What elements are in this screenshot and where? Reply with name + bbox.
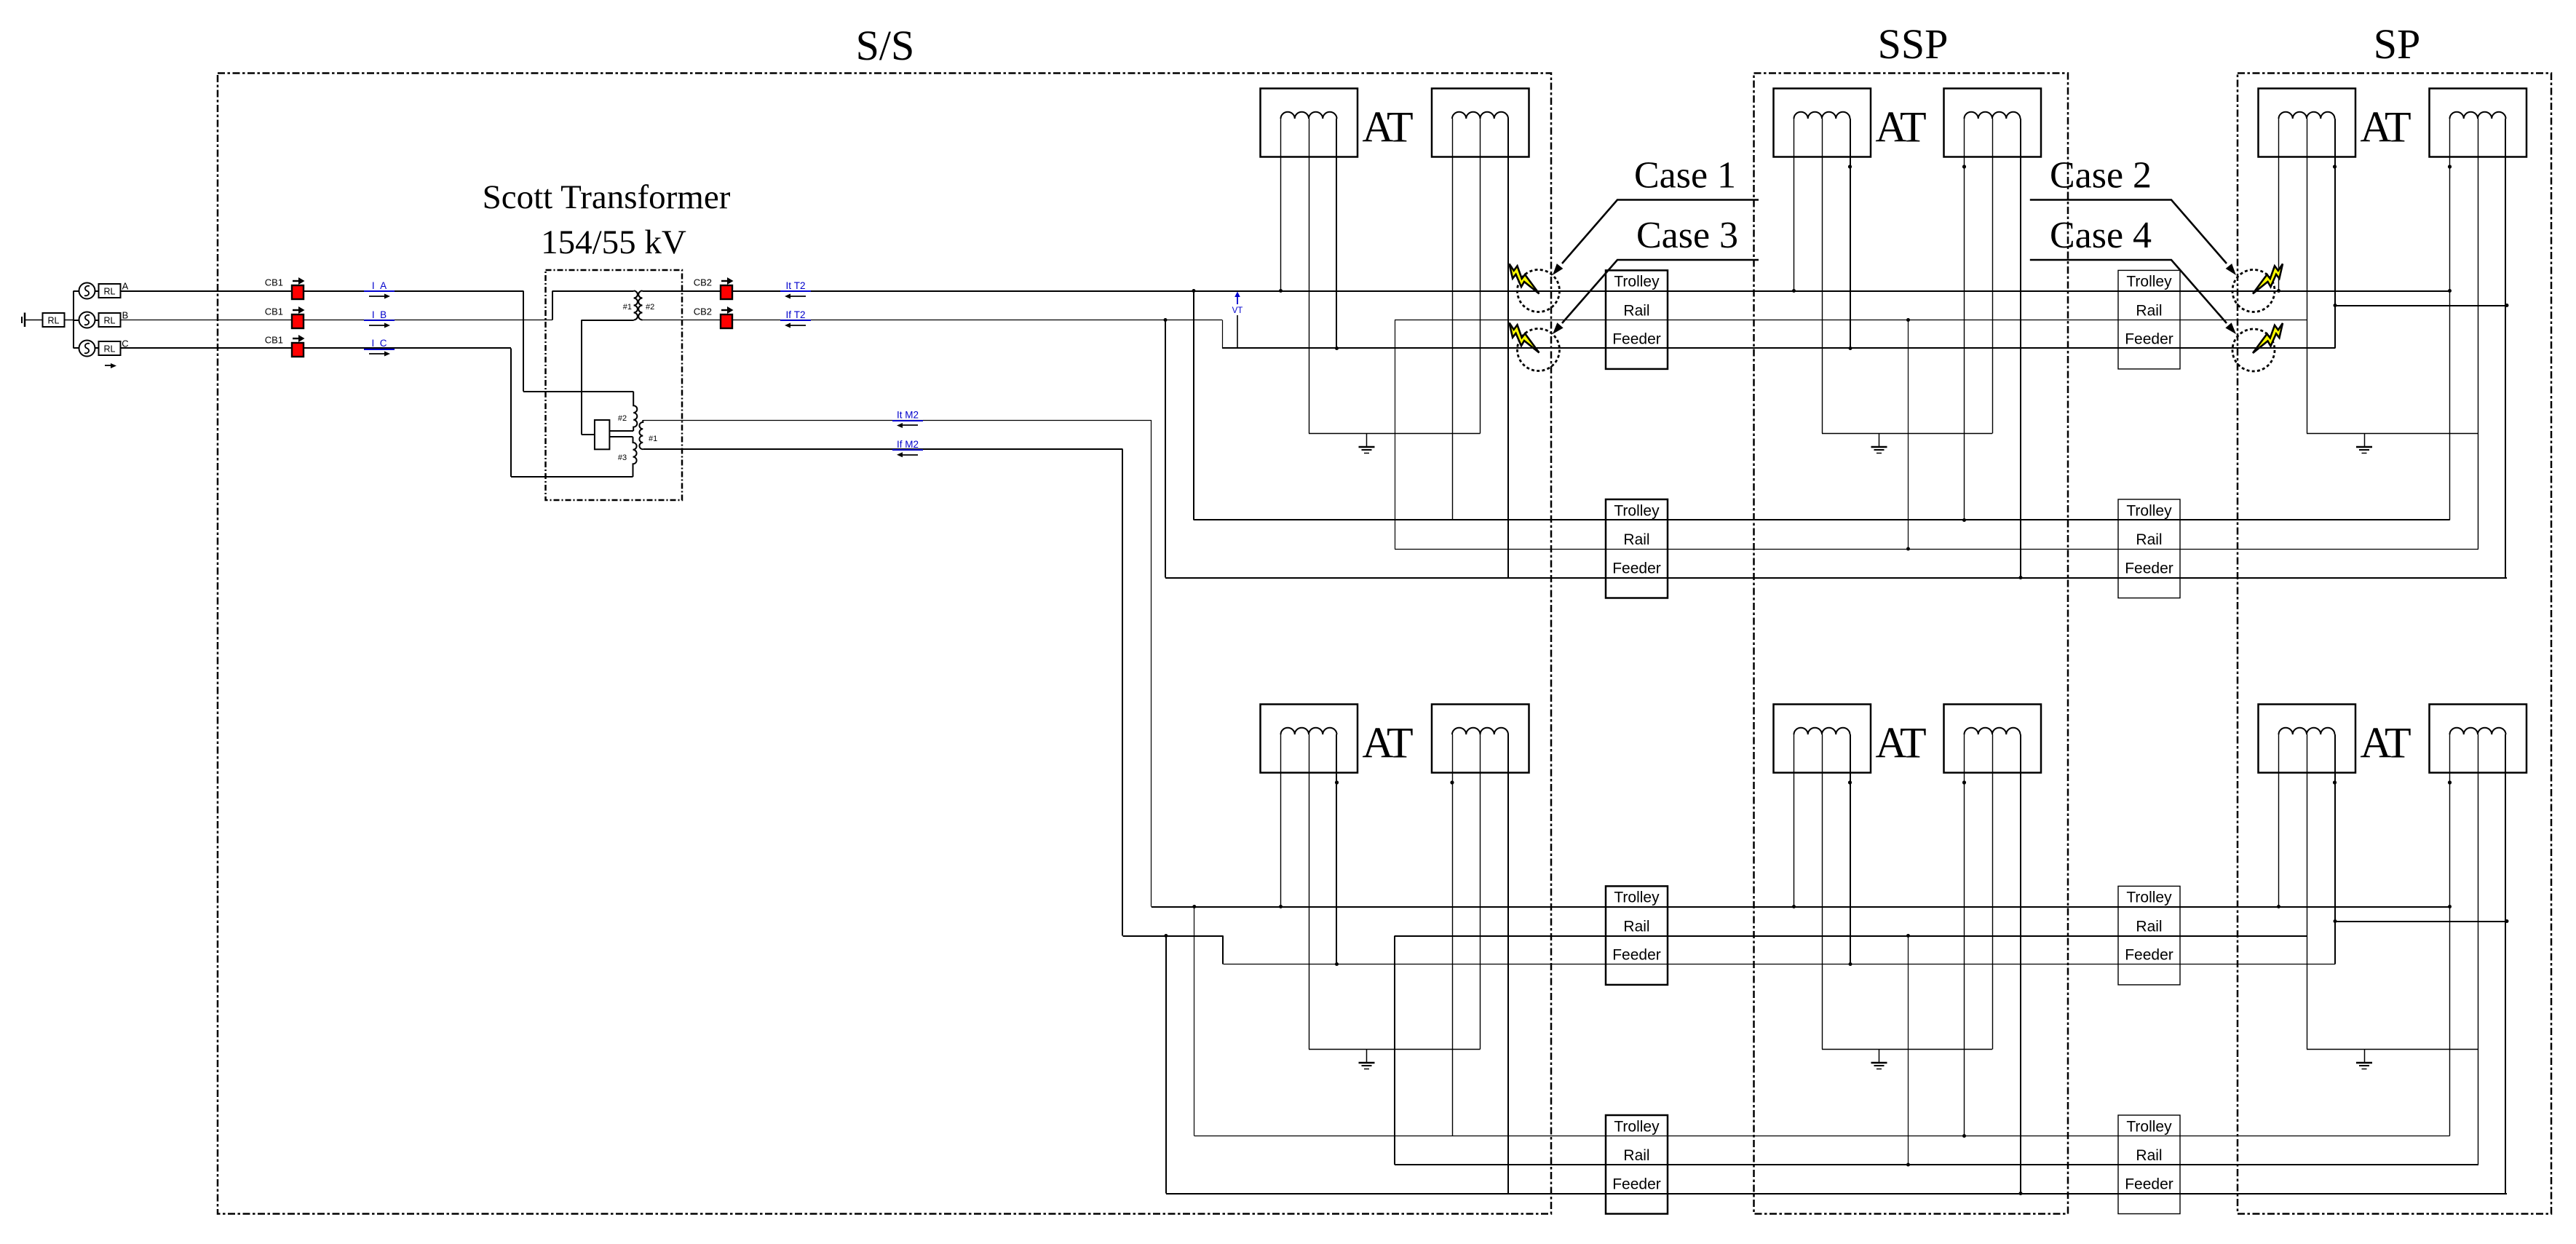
svg-text:#1: #1 [623, 303, 632, 312]
svg-text:B: B [122, 310, 129, 321]
svg-text:Trolley: Trolley [2126, 503, 2172, 520]
svg-text:#2: #2 [618, 414, 627, 423]
svg-text:Rail: Rail [1623, 303, 1649, 320]
svg-text:Trolley: Trolley [2126, 274, 2172, 290]
svg-text:Rail: Rail [2136, 1147, 2162, 1164]
svg-text:SSP: SSP [1878, 20, 1949, 68]
svg-text:AT: AT [1875, 103, 1926, 151]
svg-text:A: A [122, 281, 129, 292]
svg-text:Feeder: Feeder [2125, 1176, 2173, 1193]
svg-text:Rail: Rail [1623, 1147, 1649, 1164]
svg-text:154/55 kV: 154/55 kV [541, 223, 686, 261]
svg-text:RL: RL [104, 287, 116, 297]
svg-text:Case 2: Case 2 [2050, 155, 2152, 197]
svg-text:AT: AT [1875, 719, 1926, 767]
svg-text:Feeder: Feeder [1612, 560, 1661, 577]
svg-text:Trolley: Trolley [2126, 890, 2172, 906]
svg-text:Rail: Rail [2136, 303, 2162, 320]
svg-text:Feeder: Feeder [1612, 947, 1661, 964]
svg-text:Trolley: Trolley [1614, 503, 1660, 520]
svg-text:I C: I C [371, 338, 387, 349]
svg-text:AT: AT [2360, 719, 2411, 767]
svg-text:Rail: Rail [1623, 919, 1649, 935]
svg-text:Feeder: Feeder [2125, 331, 2173, 348]
svg-text:Feeder: Feeder [1612, 331, 1661, 348]
svg-text:Feeder: Feeder [1612, 1176, 1661, 1193]
svg-text:SP: SP [2374, 20, 2421, 68]
svg-text:It M2: It M2 [897, 410, 919, 421]
svg-text:RL: RL [104, 344, 116, 354]
svg-text:Feeder: Feeder [2125, 560, 2173, 577]
svg-text:I B: I B [372, 309, 387, 320]
svg-text:Trolley: Trolley [1614, 274, 1660, 290]
svg-text:CB1: CB1 [265, 306, 283, 317]
svg-text:If T2: If T2 [785, 309, 805, 320]
svg-text:CB2: CB2 [694, 306, 712, 317]
svg-text:Case 1: Case 1 [1634, 155, 1736, 197]
svg-text:#2: #2 [646, 303, 654, 312]
svg-text:I A: I A [372, 280, 387, 291]
svg-text:Case 4: Case 4 [2050, 215, 2152, 256]
svg-text:Rail: Rail [2136, 531, 2162, 548]
svg-text:S/S: S/S [856, 22, 915, 69]
svg-text:CB1: CB1 [265, 277, 283, 288]
svg-text:RL: RL [48, 316, 60, 326]
svg-text:CB2: CB2 [694, 277, 712, 288]
svg-text:Trolley: Trolley [1614, 1119, 1660, 1136]
svg-text:VT: VT [1232, 306, 1243, 315]
svg-text:Rail: Rail [1623, 531, 1649, 548]
svg-text:Trolley: Trolley [2126, 1119, 2172, 1136]
svg-text:Trolley: Trolley [1614, 890, 1660, 906]
svg-text:It T2: It T2 [785, 280, 805, 291]
svg-text:#1: #1 [649, 435, 657, 443]
svg-text:If M2: If M2 [897, 439, 919, 450]
svg-text:Rail: Rail [2136, 919, 2162, 935]
svg-text:RL: RL [104, 316, 116, 326]
svg-text:AT: AT [1362, 103, 1413, 151]
svg-text:Scott Transformer: Scott Transformer [483, 178, 731, 216]
svg-text:AT: AT [1362, 719, 1413, 767]
svg-text:#3: #3 [618, 453, 627, 462]
svg-text:AT: AT [2360, 103, 2411, 151]
svg-text:Case 3: Case 3 [1636, 215, 1738, 256]
svg-text:CB1: CB1 [265, 335, 283, 346]
svg-text:Feeder: Feeder [2125, 947, 2173, 964]
